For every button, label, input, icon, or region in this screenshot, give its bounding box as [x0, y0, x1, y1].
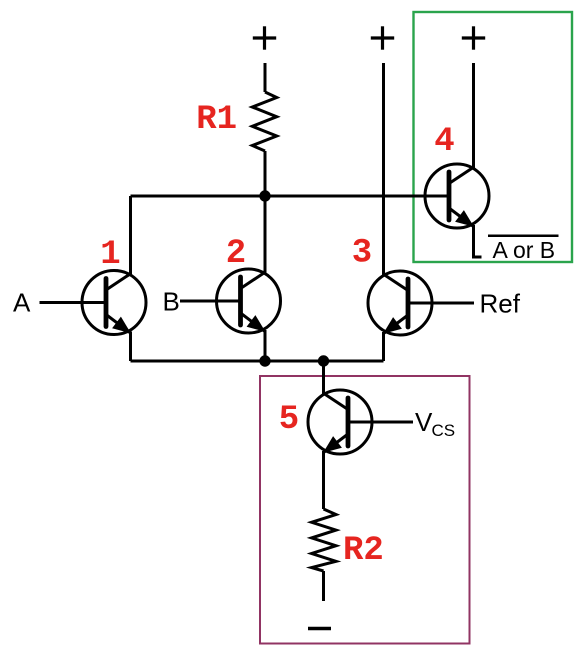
wire (Ref lead) — [408, 302, 474, 305]
resistor R2 — [312, 509, 336, 571]
wire (emitter bus to Q5 collector) — [322, 361, 325, 395]
power + (above R1) — [253, 26, 276, 49]
wire (Q1 emitter drop) — [129, 332, 132, 362]
svg-text:A: A — [13, 288, 31, 318]
svg-text:B: B — [163, 287, 180, 317]
svg-text:Ref: Ref — [480, 289, 521, 319]
node (Q2 emitter junction) — [259, 355, 270, 366]
wire (Q1 collector riser) — [129, 196, 132, 275]
purple box (current source 5) — [260, 376, 470, 644]
wire (emitter bus y=361) — [131, 360, 384, 363]
svg-text:V: V — [415, 407, 433, 437]
transistor Q1 — [82, 271, 146, 335]
node (R1 / bus junction) — [259, 190, 270, 201]
svg-text:2: 2 — [226, 235, 246, 273]
wire (R2 to minus) — [322, 571, 325, 601]
transistor Q2 — [217, 269, 281, 333]
wire (Vcs lead) — [348, 421, 413, 424]
wire (Q2 collector riser) — [264, 196, 267, 274]
svg-text:1: 1 — [100, 236, 120, 274]
resistor R1 — [252, 92, 276, 151]
power + (above Q3) — [371, 26, 394, 49]
power + (above Q4) — [462, 26, 485, 49]
transistor Q3 — [368, 271, 432, 335]
transistor Q4 — [425, 164, 489, 228]
svg-text:R1: R1 — [196, 101, 237, 139]
overline on output label — [488, 235, 559, 238]
wire (Q2 emitter drop) — [264, 330, 267, 361]
node (Q5 collector junction) — [318, 355, 329, 366]
svg-text:5: 5 — [279, 401, 299, 439]
svg-text:A or B: A or B — [493, 237, 556, 263]
svg-text:R2: R2 — [343, 532, 384, 570]
wire (Q5 emitter to R2) — [322, 451, 325, 509]
wire (+ to Q4 collector) — [472, 63, 475, 169]
wire (input B lead) — [180, 300, 241, 303]
wire (collector bus y=196 from Q1 to Q4 base) — [131, 195, 450, 198]
wire (Q4 emitter drop with foot) — [474, 225, 482, 257]
svg-text:CS: CS — [432, 421, 456, 440]
wire (input A lead) — [40, 301, 107, 304]
svg-text:4: 4 — [434, 123, 454, 161]
green box (output stage 4) — [414, 12, 573, 262]
svg-text:3: 3 — [352, 235, 372, 273]
wire (+ to Q3 collector) — [382, 63, 385, 276]
transistor Q5 — [308, 390, 372, 454]
wire (R1 bottom to node) — [264, 151, 267, 196]
wire (+ to R1 top) — [264, 63, 267, 92]
wire (Q3 emitter drop) — [382, 332, 385, 361]
power minus — [308, 627, 331, 630]
